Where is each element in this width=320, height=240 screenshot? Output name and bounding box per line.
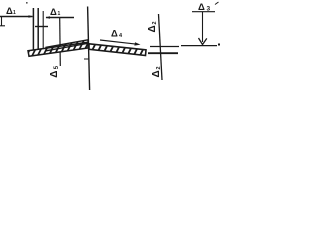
- dimension line Δ1 left with right arrowhead: [0, 15, 33, 18]
- svg-text:Δ: Δ: [50, 7, 57, 18]
- extension tick lower right of slab: [148, 52, 178, 54]
- vertical reference line through slab at x60: [59, 18, 62, 66]
- vertical dimension line Δ2: [159, 14, 163, 80]
- extension line 1: [32, 8, 34, 50]
- svg-text:2: 2: [156, 66, 162, 69]
- label Δ4: [111, 29, 123, 40]
- extension tick upper right of slab: [150, 46, 179, 48]
- stray corner mark at left edge: [0, 17, 5, 26]
- right slab (hatched): [80, 37, 168, 62]
- end dot of reference line: [218, 44, 220, 46]
- svg-text:Δ: Δ: [49, 71, 60, 78]
- svg-text:Δ: Δ: [147, 25, 158, 32]
- inner dimension segment: [35, 26, 48, 28]
- svg-text:1: 1: [58, 11, 61, 17]
- extension line 3: [42, 11, 44, 49]
- tick on centre line: [84, 58, 90, 60]
- svg-text:1: 1: [13, 10, 16, 16]
- extension line 2: [37, 8, 39, 50]
- slope arrow for Δ4: [100, 40, 141, 46]
- underline of Δ3: [192, 11, 215, 13]
- dimension line Δ1 second with left arrowhead: [46, 16, 75, 19]
- label Δ5 rotated under left slab: [49, 65, 60, 78]
- label Δ2 rotated (top): [147, 21, 158, 32]
- svg-text:4: 4: [119, 33, 123, 39]
- noise dot: [26, 2, 28, 4]
- left slab upper lamina: [46, 40, 88, 51]
- stray mark top-right: [215, 2, 219, 5]
- centre joint line: [88, 7, 90, 91]
- reference surface line far right: [181, 45, 217, 47]
- label Δ1 (left): [6, 6, 16, 17]
- left slab (hatched): [18, 37, 108, 62]
- svg-text:Δ: Δ: [151, 70, 162, 77]
- svg-text:Δ: Δ: [111, 29, 118, 40]
- label Δ2 rotated (bottom): [151, 66, 162, 77]
- label Δ1 (second): [50, 7, 61, 18]
- svg-text:Δ: Δ: [6, 6, 13, 17]
- svg-text:2: 2: [152, 21, 158, 24]
- label Δ3 (far right): [198, 2, 211, 13]
- svg-text:5: 5: [54, 65, 60, 69]
- leader arrow of Δ3 pointing down: [199, 12, 207, 45]
